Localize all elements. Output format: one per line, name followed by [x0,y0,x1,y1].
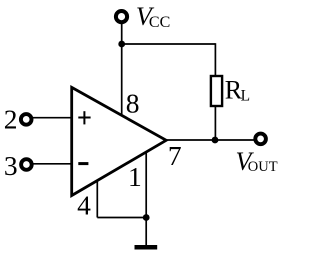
wire resistor bottom [214,106,216,140]
pin label 3 [4,150,18,181]
pin label 7 [168,140,182,171]
svg-text:4: 4 [77,190,91,221]
svg-text:7: 7 [168,140,182,171]
label VOUT [236,147,278,176]
wire VCC rail horizontal [122,43,216,45]
pin label 8 [126,88,140,119]
wire output horizontal [166,139,254,141]
svg-text:OUT: OUT [248,159,278,175]
svg-text:1: 1 [128,161,142,192]
pin label 4 [77,190,91,221]
svg-text:CC: CC [149,14,170,31]
pin label 1 [128,161,142,192]
pin label 2 [4,104,18,135]
ground [135,245,158,250]
wire resistor top [214,43,216,76]
wire pin2 input [33,117,72,119]
terminal VCC [116,11,127,22]
plus input symbol [78,111,90,124]
wire pin3 input [33,163,71,165]
wire pin4 vertical [96,181,98,218]
terminal pin2 [21,114,32,125]
svg-text:8: 8 [126,88,140,119]
label VCC [136,2,170,31]
op-amp U1 [72,87,167,195]
svg-text:2: 2 [4,104,18,135]
junction node output [212,137,219,144]
junction node ground [143,214,150,221]
minus input symbol [78,162,88,165]
junction node VCC rail [118,41,125,48]
svg-text:3: 3 [4,150,18,181]
terminal VOUT [255,134,266,145]
svg-text:L: L [241,88,250,105]
terminal pin3 [21,159,32,170]
label RL [225,76,250,105]
resistor RL [211,76,222,106]
wire pin4 horizontal [97,217,146,219]
wire pin1 to ground [145,151,147,246]
wire pin8 VCC vertical [121,24,123,116]
